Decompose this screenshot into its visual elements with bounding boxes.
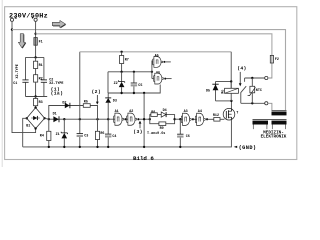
contact top wire bbox=[245, 77, 265, 79]
svg-text:R3: R3 bbox=[39, 101, 43, 105]
gate A1 bbox=[114, 110, 128, 125]
node R8R9 split bbox=[149, 118, 151, 120]
zener Z2 bbox=[114, 72, 125, 93]
svg-text:R1: R1 bbox=[39, 64, 43, 68]
node top Z2 bbox=[120, 71, 122, 73]
node label (2) with arrow bbox=[92, 89, 102, 104]
gate A2 bbox=[127, 110, 150, 125]
svg-text:R2: R2 bbox=[39, 77, 43, 81]
logic box bottom wire bbox=[108, 85, 160, 94]
node x144 on signal row bbox=[143, 118, 145, 120]
wire bridge left to gnd-left drop bbox=[23, 118, 27, 147]
resistor R8 bbox=[151, 111, 157, 117]
terminal N bbox=[10, 17, 16, 21]
resistor R7 bbox=[120, 52, 129, 72]
node top C5 bbox=[133, 71, 135, 73]
node top A5A6 bbox=[151, 71, 153, 73]
node Z1 tap bbox=[63, 118, 65, 120]
contact terminal top bbox=[265, 76, 268, 79]
wire T source down to gnd bbox=[23, 120, 232, 147]
svg-text:X2-TYPE: X2-TYPE bbox=[49, 82, 63, 86]
wire F1 to box bbox=[35, 45, 37, 57]
resistor R5 bbox=[83, 100, 90, 107]
logic box left wire bbox=[107, 72, 109, 93]
input box bottom wire bbox=[26, 96, 48, 98]
border frame bbox=[5, 7, 297, 160]
capacitor C3 (electrolytic) bbox=[77, 119, 89, 147]
node N junction bbox=[11, 28, 13, 30]
svg-text:R7: R7 bbox=[125, 59, 129, 63]
node P junction bbox=[34, 33, 36, 35]
svg-text:D1: D1 bbox=[53, 112, 57, 116]
gate A3 bbox=[181, 110, 196, 125]
gnd rail nodes bbox=[48, 146, 50, 148]
svg-text:Z1: Z1 bbox=[56, 133, 60, 137]
fuse F2 bbox=[268, 55, 279, 78]
svg-text:B1: B1 bbox=[26, 124, 30, 128]
node C6 tap bbox=[179, 118, 181, 120]
wire P drop bbox=[35, 21, 37, 37]
svg-text:C6: C6 bbox=[186, 135, 190, 139]
wire x144 drop bbox=[143, 93, 145, 147]
svg-text:N: N bbox=[15, 17, 17, 21]
rail N (grey, top, loops right side down) bbox=[12, 30, 286, 111]
wire to A3 bbox=[175, 118, 183, 120]
transistor T (MOSFET) bbox=[223, 108, 238, 120]
svg-text:D3: D3 bbox=[113, 100, 117, 104]
capacitor C4 (electrolytic) bbox=[105, 119, 116, 147]
node bottom Z2 bbox=[120, 92, 122, 94]
thermistor NTC bbox=[248, 78, 262, 103]
rail P (to F2) bbox=[36, 34, 272, 55]
capacitor C2 bbox=[41, 57, 64, 96]
relay top wire bbox=[216, 81, 232, 83]
node box bottom bbox=[34, 95, 36, 97]
svg-text:Bild 6: Bild 6 bbox=[133, 155, 154, 162]
wire bottom terminal to heater bbox=[268, 103, 272, 110]
svg-text:T: T bbox=[236, 112, 238, 116]
svg-text:(4): (4) bbox=[237, 66, 247, 72]
resistor R4 bbox=[40, 119, 51, 147]
contact bottom wire bbox=[241, 102, 265, 104]
node R8R9 join bbox=[173, 118, 175, 120]
resistor R1 bbox=[34, 57, 43, 68]
capacitor C1 bbox=[13, 57, 28, 96]
node coil top bbox=[230, 80, 232, 82]
block arrow down (current flow) bbox=[18, 34, 26, 49]
VCC rail from C3 node up and right bbox=[79, 52, 81, 119]
resistor R6 bbox=[95, 131, 104, 147]
svg-text:R6: R6 bbox=[100, 132, 104, 136]
node label (3) with arrow bbox=[133, 121, 143, 136]
wire T drain up bbox=[230, 101, 232, 109]
diode D4 bbox=[161, 109, 166, 117]
node label (1) (1a) bbox=[51, 87, 64, 97]
node label (4) with arrow bbox=[237, 66, 247, 87]
wire N drop bbox=[12, 21, 36, 132]
svg-text:F2: F2 bbox=[275, 58, 279, 62]
svg-text:F1: F1 bbox=[39, 41, 43, 45]
heater element (Medizin-Elektronik) bbox=[253, 110, 287, 129]
svg-text:C3: C3 bbox=[84, 135, 88, 139]
fuse F1 bbox=[34, 38, 43, 46]
input box top wire bbox=[26, 56, 44, 58]
svg-text:R9: R9 bbox=[160, 127, 164, 131]
gate A6 bbox=[154, 71, 172, 84]
diode D5 bbox=[206, 82, 219, 101]
svg-text:(1a): (1a) bbox=[51, 91, 64, 97]
svg-text:C1: C1 bbox=[13, 82, 17, 86]
relay coil Re bbox=[222, 82, 239, 101]
page edge shadow bbox=[1, 0, 3, 167]
resistor R2 bbox=[34, 69, 43, 97]
zener Z1 bbox=[56, 119, 68, 147]
node R6 tap bbox=[96, 118, 98, 120]
svg-text:NTC: NTC bbox=[256, 89, 262, 93]
logic box top wire bbox=[108, 71, 152, 73]
svg-text:ELEKTRONIK: ELEKTRONIK bbox=[261, 135, 287, 140]
node coil bottom bbox=[230, 100, 232, 102]
svg-text:Z2: Z2 bbox=[114, 82, 118, 86]
resistor R12 bbox=[213, 114, 225, 121]
resistor R9 bbox=[159, 122, 166, 131]
terminal P bbox=[32, 17, 38, 21]
resistor R3 bbox=[34, 97, 43, 108]
svg-text:R4: R4 bbox=[40, 135, 44, 139]
wire A5A6 input bracket bbox=[151, 61, 153, 79]
node box top bbox=[34, 56, 36, 58]
node label (GND) bbox=[234, 145, 257, 151]
diode D1 bbox=[53, 112, 59, 122]
svg-text:P: P bbox=[32, 17, 34, 21]
svg-text:(GND): (GND) bbox=[239, 145, 257, 151]
bridge rectifier B1 bbox=[26, 106, 46, 129]
gate A4 bbox=[195, 110, 213, 125]
block arrow right bbox=[52, 20, 66, 28]
node bottom C5 bbox=[133, 92, 135, 94]
node R7 top bbox=[120, 51, 122, 53]
relay contact blade bbox=[241, 78, 246, 103]
main DC wire from bridge bbox=[45, 117, 115, 120]
capacitor C5 (electrolytic) bbox=[131, 72, 143, 93]
capacitor C6 (electrolytic) bbox=[177, 119, 190, 147]
parallel R8/D4 + R9 bbox=[150, 115, 175, 120]
diode D2 bbox=[62, 101, 70, 108]
svg-text:(3): (3) bbox=[133, 129, 143, 135]
contact terminal bottom bbox=[265, 102, 268, 105]
upper branch D2/R5 bbox=[49, 106, 98, 132]
svg-text:(2): (2) bbox=[92, 89, 102, 95]
label MEDIZIN-ELEKTRONIK bbox=[261, 130, 287, 139]
diode D3 bbox=[105, 93, 117, 119]
node R4 tap bbox=[48, 118, 50, 120]
relay bottom wire bbox=[216, 100, 232, 102]
gate A5 bbox=[153, 55, 171, 68]
svg-text:T.an=0.6s: T.an=0.6s bbox=[147, 132, 165, 136]
svg-text:X2-TYPE: X2-TYPE bbox=[16, 64, 20, 78]
svg-text:C4: C4 bbox=[112, 135, 116, 139]
node D3/C4 tap bbox=[107, 118, 109, 120]
node C3 tap bbox=[79, 118, 81, 120]
svg-text:D5: D5 bbox=[206, 90, 210, 94]
svg-text:C5: C5 bbox=[138, 84, 142, 88]
node bottom x144 bbox=[143, 92, 145, 94]
